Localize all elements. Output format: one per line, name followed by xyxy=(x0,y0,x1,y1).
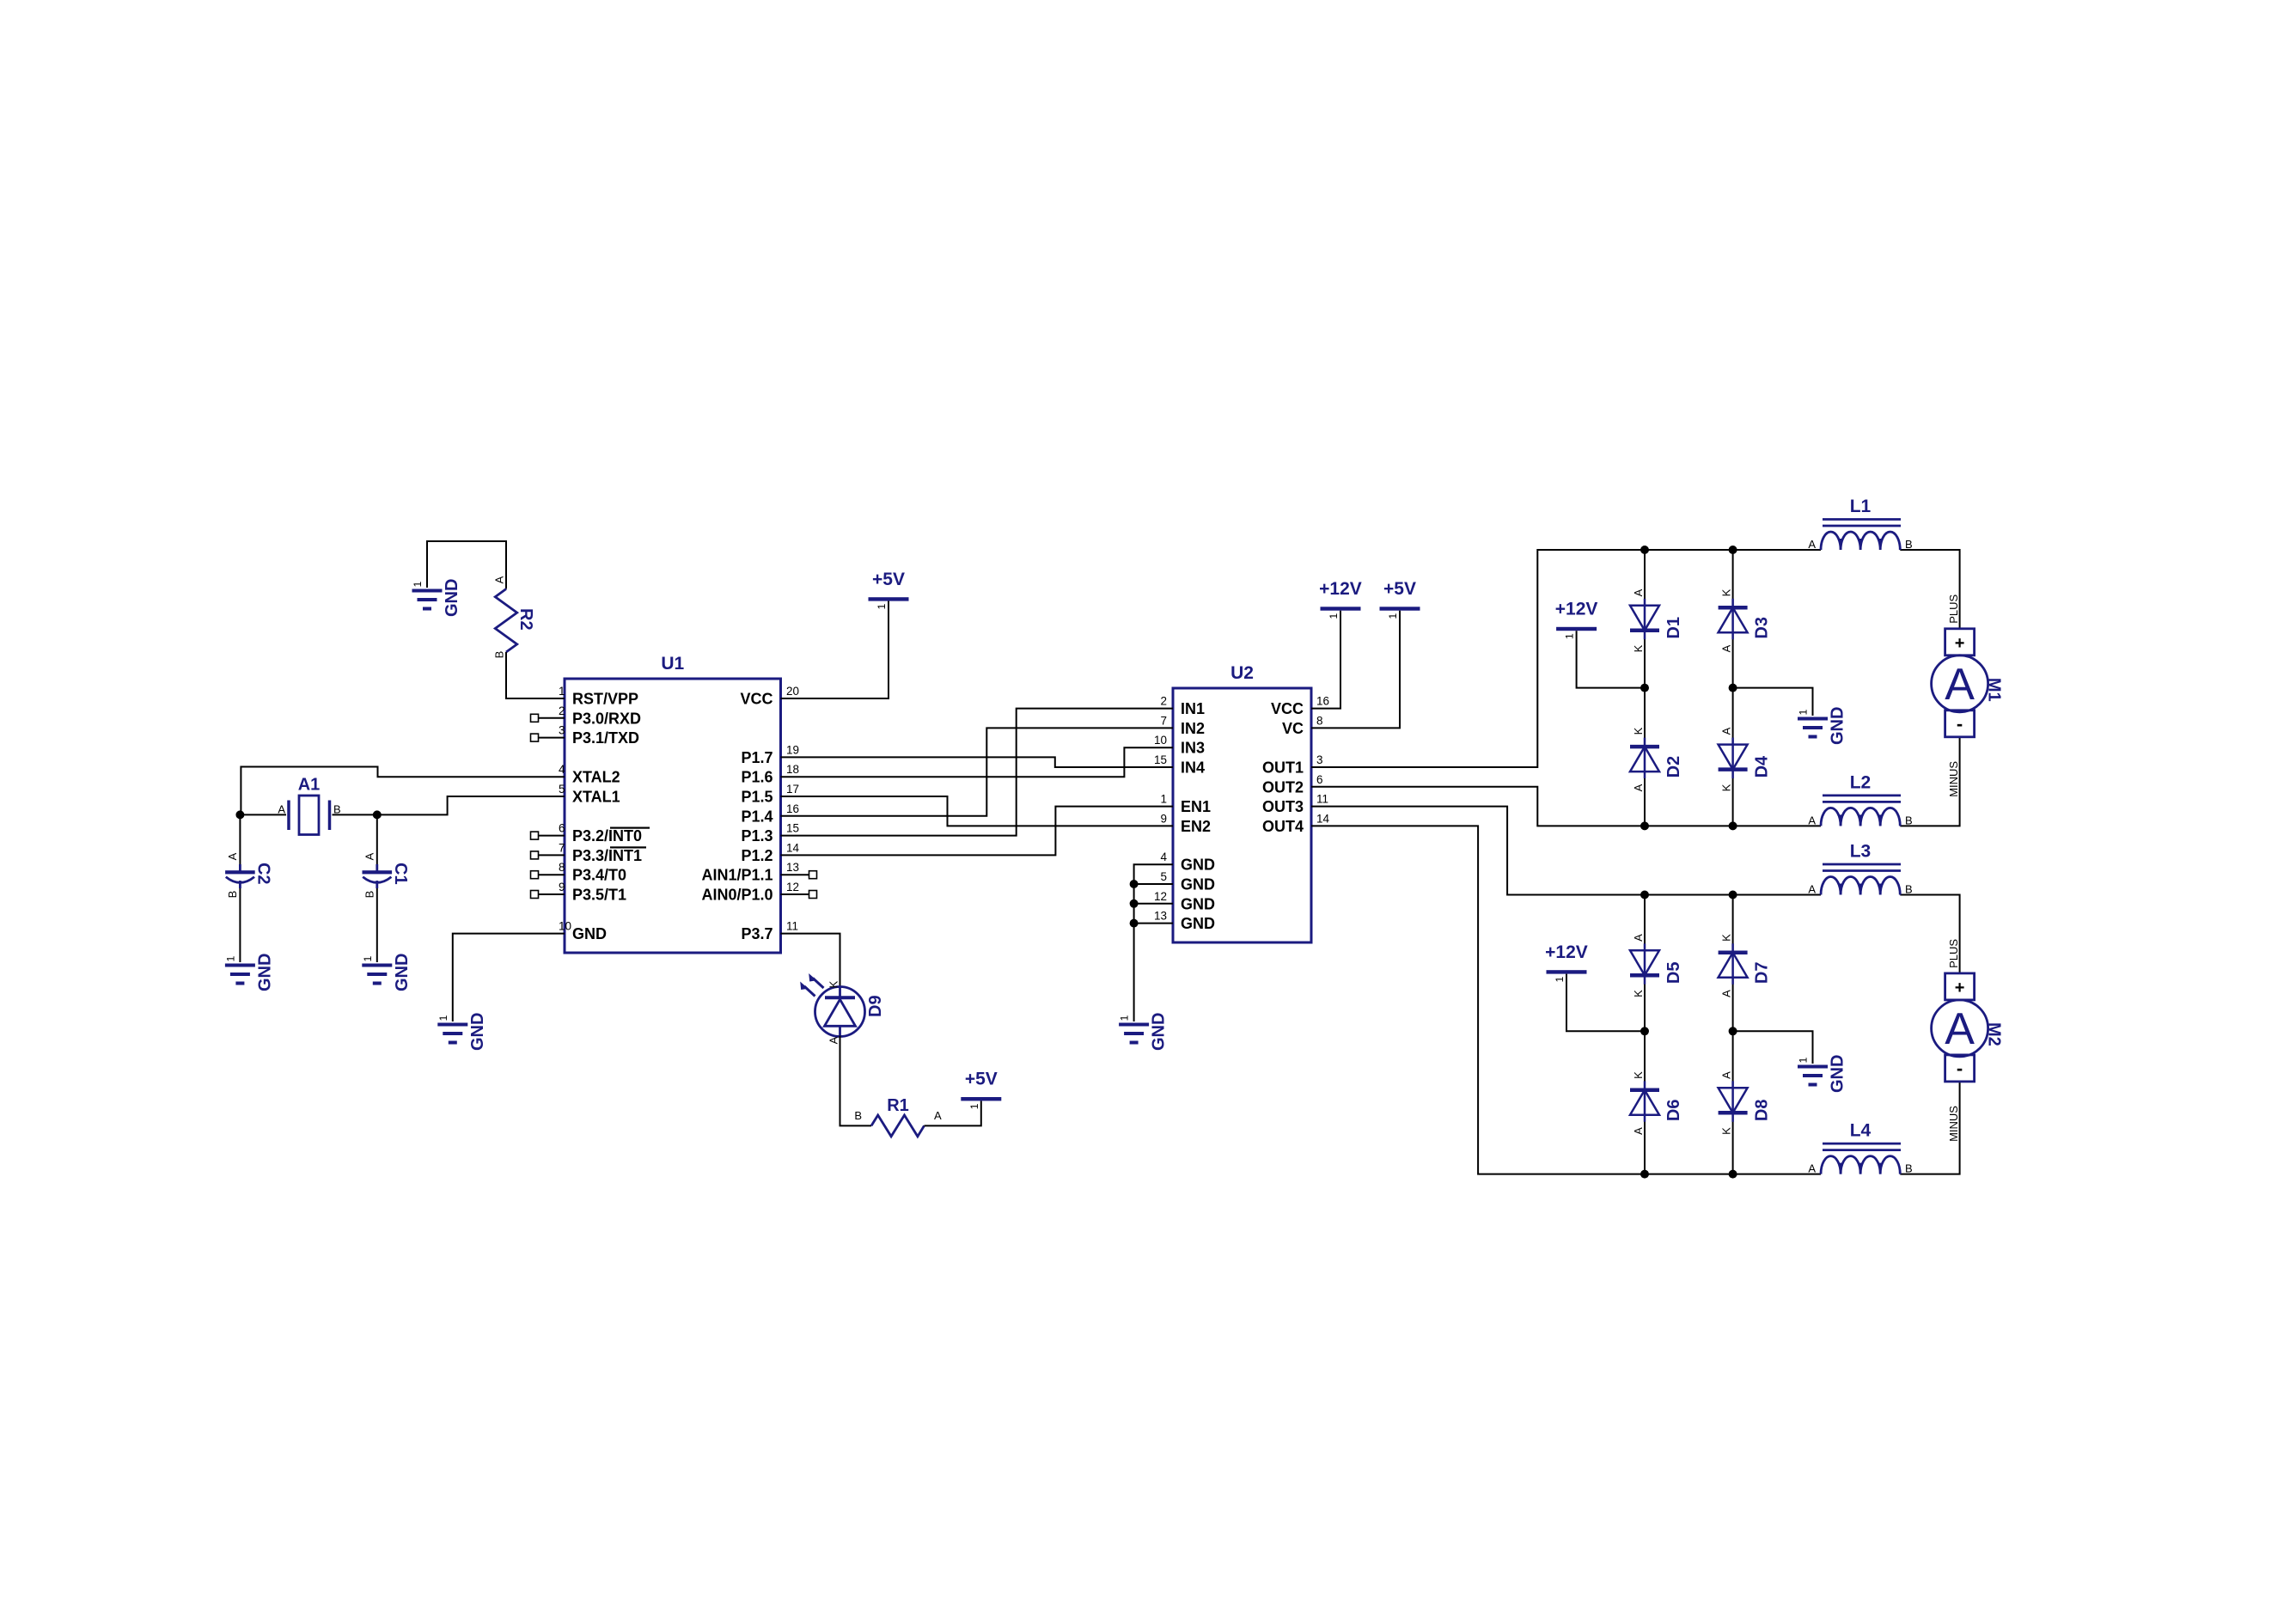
wire D7 cathode column xyxy=(1732,895,1734,951)
U1 pin 15 P1.3 name/number xyxy=(741,822,799,845)
svg-text:OUT2: OUT2 xyxy=(1262,778,1304,796)
svg-text:7: 7 xyxy=(1160,714,1167,727)
IC U1 AT89C2051 body xyxy=(565,654,781,953)
svg-text:10: 10 xyxy=(1154,734,1167,747)
diode D3 xyxy=(1719,599,1772,640)
svg-text:A1: A1 xyxy=(298,776,321,795)
svg-text:15: 15 xyxy=(1154,753,1167,766)
wire D2 anode to bottom rail xyxy=(1644,771,1646,826)
svg-text:P1.6: P1.6 xyxy=(741,769,772,786)
svg-text:D2: D2 xyxy=(1664,756,1683,778)
U2 pin 7 IN2 name/number xyxy=(1160,714,1205,737)
svg-text:B: B xyxy=(363,891,376,899)
U1 pin 12 stub wire xyxy=(781,893,809,895)
svg-text:P3.3/INT1: P3.3/INT1 xyxy=(572,847,642,864)
svg-text:A: A xyxy=(1720,990,1733,997)
svg-text:11: 11 xyxy=(786,920,798,933)
svg-text:A: A xyxy=(1720,727,1733,735)
svg-text:B: B xyxy=(333,803,341,816)
svg-text:D6: D6 xyxy=(1664,1100,1683,1122)
svg-text:1: 1 xyxy=(1564,633,1576,639)
svg-text:6: 6 xyxy=(1316,773,1323,786)
svg-text:14: 14 xyxy=(1316,812,1330,825)
ground symbol at bridge2 xyxy=(1798,1055,1847,1093)
U1 pin 12 AIN0/P1.0 name/number xyxy=(701,881,799,904)
U1 pin 4 XTAL2 name/number xyxy=(559,763,620,786)
svg-text:1: 1 xyxy=(412,581,424,587)
svg-text:B: B xyxy=(1905,814,1913,826)
svg-text:B: B xyxy=(493,651,506,659)
svg-text:17: 17 xyxy=(786,783,799,796)
wire L2 B to motor M1 minus xyxy=(1900,737,1959,826)
U1 pin 7 P3.3/INT1 name/number xyxy=(559,841,642,864)
svg-text:10: 10 xyxy=(559,920,571,933)
svg-text:P1.2: P1.2 xyxy=(741,847,772,864)
U1 pin 9 stub wire xyxy=(539,893,565,895)
capacitor C1 xyxy=(363,852,410,898)
svg-text:1: 1 xyxy=(559,685,565,698)
junction bridge2 bottom rail / D6 xyxy=(1640,1170,1649,1179)
U1 pin 17 P1.5 name/number xyxy=(741,783,799,806)
U1 pin 13 nc terminal xyxy=(809,871,817,879)
wire U2 OUT4 to bridge2 bottom rail xyxy=(1311,826,1821,1174)
U1 pin 13 stub wire xyxy=(781,874,809,875)
svg-text:A: A xyxy=(1720,1071,1733,1079)
diode D1 xyxy=(1630,599,1683,640)
svg-text:L1: L1 xyxy=(1850,497,1872,516)
U1 pin 6 stub wire xyxy=(539,835,565,837)
wire L4 B to motor M2 minus xyxy=(1900,1082,1959,1174)
wire D7/D8 node to ground xyxy=(1733,1031,1813,1064)
svg-text:GND: GND xyxy=(1829,707,1847,745)
svg-text:A: A xyxy=(1720,644,1733,652)
wire R2 pin B to U1 RST pin 1 xyxy=(506,652,565,698)
svg-text:AIN1/P1.1: AIN1/P1.1 xyxy=(701,867,772,884)
ground symbol at bridge1 xyxy=(1798,707,1847,745)
svg-text:GND: GND xyxy=(393,954,412,991)
wire U2 GND pin 12 stub xyxy=(1134,903,1173,905)
U1 pin 6 P3.2/INT0 name/number xyxy=(559,822,642,845)
junction node XTAL1/C1 xyxy=(373,810,382,819)
svg-text:2: 2 xyxy=(559,704,565,717)
svg-text:P1.3: P1.3 xyxy=(741,827,772,845)
svg-text:A: A xyxy=(1808,538,1816,551)
svg-text:+: + xyxy=(1955,979,1965,997)
U1 pin 8 P3.4/T0 name/number xyxy=(559,861,626,883)
svg-text:GND: GND xyxy=(1829,1055,1847,1093)
D7 anode label A xyxy=(1720,990,1733,997)
svg-text:GND: GND xyxy=(443,579,461,617)
wire P1.7 to U2 IN4 xyxy=(781,757,1174,767)
svg-text:P3.2/INT0: P3.2/INT0 xyxy=(572,827,642,845)
svg-text:A: A xyxy=(1632,934,1645,942)
svg-text:1: 1 xyxy=(224,955,236,961)
svg-text:19: 19 xyxy=(786,743,799,756)
svg-text:VCC: VCC xyxy=(1271,700,1304,717)
U2 pin 13 GND name/number xyxy=(1154,910,1215,933)
svg-text:K: K xyxy=(1632,644,1645,652)
U1 pin 8 stub wire xyxy=(539,874,565,875)
svg-text:1: 1 xyxy=(1554,976,1566,982)
svg-text:K: K xyxy=(1632,727,1645,735)
svg-text:A: A xyxy=(226,852,239,860)
power +12V at bridge2 xyxy=(1545,942,1588,983)
svg-text:K: K xyxy=(827,980,840,988)
svg-text:1: 1 xyxy=(1798,1057,1810,1063)
wire D2 cathode from node xyxy=(1644,688,1646,743)
svg-text:XTAL2: XTAL2 xyxy=(572,769,620,786)
D3 cathode label K xyxy=(1720,588,1733,596)
wire U1 GND pin 10 to ground xyxy=(453,934,565,1021)
power +5V above U1 xyxy=(869,570,909,610)
svg-text:6: 6 xyxy=(559,822,565,835)
wire crystal A to C2 xyxy=(239,814,241,864)
U1 pin 12 nc terminal xyxy=(809,891,817,899)
diode D6 xyxy=(1630,1081,1683,1122)
svg-text:MINUS: MINUS xyxy=(1947,1106,1960,1142)
svg-text:P3.0/RXD: P3.0/RXD xyxy=(572,710,641,727)
D7 cathode label K xyxy=(1720,934,1733,942)
svg-text:A: A xyxy=(1945,660,1975,710)
diode D5 xyxy=(1630,943,1683,985)
wire GND loop to R2 pin A xyxy=(427,541,506,589)
svg-text:RST/VPP: RST/VPP xyxy=(572,691,638,708)
crystal A1 xyxy=(278,776,340,835)
svg-text:L3: L3 xyxy=(1850,842,1872,862)
svg-text:GND: GND xyxy=(1181,915,1215,932)
junction D5-D6 +12V node xyxy=(1640,1027,1649,1035)
svg-text:GND: GND xyxy=(1181,876,1215,893)
svg-text:XTAL1: XTAL1 xyxy=(572,789,620,806)
svg-text:9: 9 xyxy=(559,881,565,893)
D1 cathode label K xyxy=(1632,644,1645,652)
wire D4 anode from node xyxy=(1732,688,1734,743)
svg-text:B: B xyxy=(226,891,239,899)
wire U2 GND pin 5 stub xyxy=(1134,883,1173,885)
svg-text:12: 12 xyxy=(786,881,799,893)
D3 anode label A xyxy=(1720,644,1733,652)
U2 pin 4 GND name/number xyxy=(1160,851,1215,874)
U1 pin 18 P1.6 name/number xyxy=(741,763,799,786)
svg-text:A: A xyxy=(827,1036,840,1044)
diode D4 xyxy=(1719,738,1772,779)
svg-text:M2: M2 xyxy=(1985,1022,2004,1046)
wire L1 B to motor M1 plus xyxy=(1900,550,1959,629)
svg-text:K: K xyxy=(1720,934,1733,942)
U1 pin 19 P1.7 name/number xyxy=(741,743,799,766)
D8 cathode label K xyxy=(1720,1127,1733,1135)
svg-text:+5V: +5V xyxy=(872,570,905,589)
svg-text:A: A xyxy=(493,576,506,583)
diode D8 xyxy=(1719,1081,1772,1122)
ground symbol for U1 pin 10 xyxy=(437,1013,487,1051)
svg-text:16: 16 xyxy=(786,802,799,815)
D2 anode label A xyxy=(1632,784,1645,791)
svg-text:PLUS: PLUS xyxy=(1947,939,1960,968)
svg-text:MINUS: MINUS xyxy=(1947,761,1960,797)
U1 pin 11 P3.7 name/number xyxy=(741,920,798,943)
junction node XTAL2/C2 xyxy=(235,810,244,819)
U1 pin 13 AIN1/P1.1 name/number xyxy=(701,861,799,883)
svg-text:PLUS: PLUS xyxy=(1947,595,1960,624)
svg-text:5: 5 xyxy=(1160,870,1167,883)
wire U2 GND pin 4 bus xyxy=(1134,864,1173,1021)
svg-text:A: A xyxy=(278,803,285,816)
svg-text:K: K xyxy=(1632,990,1645,997)
diode D2 xyxy=(1630,738,1683,779)
D4 cathode label K xyxy=(1720,784,1733,791)
svg-text:P3.4/T0: P3.4/T0 xyxy=(572,867,626,884)
svg-text:AIN0/P1.0: AIN0/P1.0 xyxy=(701,887,772,904)
svg-text:A: A xyxy=(934,1109,942,1122)
svg-text:16: 16 xyxy=(1316,695,1329,708)
D4 anode label A xyxy=(1720,727,1733,735)
wire D6 anode to bottom rail xyxy=(1644,1115,1646,1174)
wire U1 P3.7 to LED D9 cathode xyxy=(781,934,840,987)
power +5V above U2 xyxy=(1380,579,1420,619)
U2 pin 11 OUT3 name/number xyxy=(1262,793,1328,816)
svg-text:IN1: IN1 xyxy=(1181,700,1205,717)
svg-text:EN2: EN2 xyxy=(1181,818,1211,835)
U2 pin 8 VC name/number xyxy=(1282,714,1323,737)
U2 pin 5 GND name/number xyxy=(1160,870,1215,893)
junction D1-D2 +12V node xyxy=(1640,684,1649,692)
D5 anode label A xyxy=(1632,934,1645,942)
U1 pin 2 nc terminal xyxy=(531,714,539,722)
svg-text:1: 1 xyxy=(1160,793,1167,806)
U2 pin 15 IN4 name/number xyxy=(1154,753,1205,777)
IC U2 L293D body xyxy=(1173,663,1311,942)
svg-text:D5: D5 xyxy=(1664,962,1683,985)
wire +5V to U2 VC pin 8 xyxy=(1311,611,1400,729)
svg-text:1: 1 xyxy=(1328,613,1340,619)
inductor L3 xyxy=(1808,842,1912,896)
junction bridge1 bottom rail / D2 xyxy=(1640,821,1649,830)
wire crystal B lead xyxy=(333,814,377,815)
svg-text:7: 7 xyxy=(559,841,565,854)
wire D6 cathode from node xyxy=(1644,1031,1646,1086)
wire D3/D4 node to ground xyxy=(1733,688,1813,716)
wire U2 GND pin 13 stub xyxy=(1134,923,1173,924)
svg-text:K: K xyxy=(1720,588,1733,596)
svg-text:8: 8 xyxy=(1316,714,1323,727)
svg-text:A: A xyxy=(1808,883,1816,896)
wire P1.5 to U2 EN2 xyxy=(781,796,1174,826)
junction U2 GND bus pin 12 xyxy=(1130,899,1139,908)
svg-text:+12V: +12V xyxy=(1545,942,1588,962)
svg-text:L2: L2 xyxy=(1850,772,1872,792)
svg-text:1: 1 xyxy=(968,1103,980,1109)
wire D1 cathode to node xyxy=(1644,633,1646,688)
U1 pin 8 nc terminal xyxy=(531,871,539,879)
wire crystal A lead xyxy=(241,814,286,815)
wire D3 cathode column xyxy=(1732,550,1734,606)
wire D1 anode column xyxy=(1644,550,1646,606)
svg-text:18: 18 xyxy=(786,763,799,776)
LED D9 xyxy=(800,973,885,1044)
wire U2 OUT1 to bridge1 top rail xyxy=(1311,550,1821,767)
svg-text:1: 1 xyxy=(1798,709,1810,715)
resistor R2 xyxy=(493,576,536,658)
svg-text:-: - xyxy=(1957,1058,1963,1079)
svg-text:C1: C1 xyxy=(391,863,410,885)
wire +12V to D5/D6 node xyxy=(1566,974,1645,1032)
svg-text:B: B xyxy=(854,1109,862,1122)
D2 cathode label K xyxy=(1632,727,1645,735)
junction bridge1 bottom rail / D4 xyxy=(1729,821,1737,830)
svg-text:+5V: +5V xyxy=(965,1070,998,1089)
svg-text:GND: GND xyxy=(1181,895,1215,912)
svg-text:2: 2 xyxy=(1160,695,1167,708)
U1 pin 10 GND name/number xyxy=(559,920,607,943)
U2 pin 9 EN2 name/number xyxy=(1160,812,1211,835)
wire U1 XTAL1 to crystal B side xyxy=(377,796,565,814)
svg-text:4: 4 xyxy=(559,763,565,776)
power +12V above U2 xyxy=(1319,579,1362,619)
wire LED D9 anode to R1 pin B xyxy=(840,1036,872,1126)
junction bridge2 top rail / D7 xyxy=(1729,891,1737,899)
wire D3 anode to node xyxy=(1732,633,1734,688)
D6 anode label A xyxy=(1632,1127,1645,1135)
U1 pin 3 P3.1/TXD name/number xyxy=(559,724,639,747)
svg-text:13: 13 xyxy=(786,861,799,874)
U2 pin 10 IN3 name/number xyxy=(1154,734,1205,757)
svg-text:A: A xyxy=(1808,1162,1816,1175)
U1 pin 2 stub wire xyxy=(539,717,565,719)
wire D8 cathode to bottom rail xyxy=(1732,1115,1734,1174)
U1 pin 1 RST/VPP name/number xyxy=(559,685,638,708)
svg-text:+5V: +5V xyxy=(1383,579,1416,599)
svg-text:9: 9 xyxy=(1160,812,1167,825)
svg-text:IN3: IN3 xyxy=(1181,740,1205,757)
svg-text:+12V: +12V xyxy=(1555,600,1598,619)
svg-text:IN4: IN4 xyxy=(1181,759,1205,777)
wire +12V to U2 VCC pin 16 xyxy=(1311,611,1340,709)
svg-text:P1.4: P1.4 xyxy=(741,808,772,825)
wire D4 cathode to bottom rail xyxy=(1732,771,1734,826)
junction bridge2 bottom rail / D8 xyxy=(1729,1170,1737,1179)
ground symbol under C1 xyxy=(362,954,412,991)
motor M2 xyxy=(1932,939,2004,1142)
svg-text:R1: R1 xyxy=(887,1096,909,1115)
svg-text:GND: GND xyxy=(1181,857,1215,874)
svg-text:K: K xyxy=(1632,1071,1645,1079)
svg-text:A: A xyxy=(1808,814,1816,826)
U1 pin 3 stub wire xyxy=(539,737,565,739)
wire P1.4 to U2 IN2 xyxy=(781,728,1174,815)
U1 pin 2 P3.0/RXD name/number xyxy=(559,704,641,728)
svg-text:12: 12 xyxy=(1154,890,1167,903)
svg-text:P1.7: P1.7 xyxy=(741,749,772,766)
power +12V at bridge1 xyxy=(1555,600,1598,640)
ground symbol near R2 xyxy=(412,579,461,617)
wire L3 B to motor M2 plus xyxy=(1900,895,1959,973)
svg-text:B: B xyxy=(1905,883,1913,896)
U1 pin 7 stub wire xyxy=(539,854,565,856)
svg-text:-: - xyxy=(1957,713,1963,735)
svg-text:VC: VC xyxy=(1282,720,1304,737)
svg-text:P3.7: P3.7 xyxy=(741,925,772,942)
inductor L4 xyxy=(1808,1121,1912,1175)
svg-text:4: 4 xyxy=(1160,851,1167,863)
wire U2 OUT3 to bridge2 top rail xyxy=(1311,807,1821,895)
resistor R1 xyxy=(854,1096,942,1137)
diode D7 xyxy=(1719,943,1772,985)
wire crystal B to C1 xyxy=(376,814,378,864)
junction bridge1 top rail / D3 xyxy=(1729,546,1737,554)
capacitor C2 xyxy=(225,852,272,898)
junction D3-D4 GND node xyxy=(1729,684,1737,692)
U1 pin 3 nc terminal xyxy=(531,734,539,741)
U2 pin 2 IN1 name/number xyxy=(1160,695,1205,718)
svg-text:B: B xyxy=(1905,1162,1913,1175)
wire D8 anode from node xyxy=(1732,1031,1734,1086)
svg-text:A: A xyxy=(1945,1004,1975,1054)
svg-text:D4: D4 xyxy=(1753,755,1772,777)
D5 cathode label K xyxy=(1632,990,1645,997)
U2 pin 14 OUT4 name/number xyxy=(1262,812,1330,835)
svg-text:OUT4: OUT4 xyxy=(1262,818,1304,835)
svg-text:1: 1 xyxy=(1387,613,1399,619)
svg-text:A: A xyxy=(363,852,376,860)
svg-text:D1: D1 xyxy=(1664,617,1683,639)
wire D5 anode column xyxy=(1644,895,1646,951)
svg-text:14: 14 xyxy=(786,841,800,854)
U2 pin 12 GND name/number xyxy=(1154,890,1215,913)
wire +5V to U1 VCC pin 20 xyxy=(781,601,889,698)
U1 pin 20 VCC name/number xyxy=(740,685,799,708)
wire R1 pin A to +5V xyxy=(925,1101,981,1125)
svg-text:+12V: +12V xyxy=(1319,579,1362,599)
wire P1.6 to U2 IN3 xyxy=(781,747,1174,777)
svg-text:8: 8 xyxy=(559,861,565,874)
svg-text:L4: L4 xyxy=(1850,1121,1872,1141)
wire D5 cathode to node xyxy=(1644,978,1646,1031)
junction U2 GND bus pin 5 xyxy=(1130,880,1139,888)
svg-text:20: 20 xyxy=(786,685,799,698)
svg-text:A: A xyxy=(1632,1127,1645,1135)
svg-text:GND: GND xyxy=(468,1013,487,1051)
svg-text:P1.5: P1.5 xyxy=(741,789,772,806)
wire +12V to D1/D2 node xyxy=(1577,631,1645,687)
svg-text:GND: GND xyxy=(572,925,607,942)
wire D7 anode to node xyxy=(1732,978,1734,1031)
junction U2 GND bus pin 13 xyxy=(1130,919,1139,928)
svg-text:K: K xyxy=(1720,784,1733,791)
svg-text:M1: M1 xyxy=(1985,678,2004,702)
U2 pin 6 OUT2 name/number xyxy=(1262,773,1323,796)
svg-text:1: 1 xyxy=(1119,1015,1131,1021)
wire C2 to ground xyxy=(239,888,241,962)
svg-text:D7: D7 xyxy=(1753,962,1772,985)
svg-text:GND: GND xyxy=(255,954,274,991)
svg-text:K: K xyxy=(1720,1127,1733,1135)
U1 pin 6 nc terminal xyxy=(531,832,539,839)
svg-text:15: 15 xyxy=(786,822,799,835)
D8 anode label A xyxy=(1720,1071,1733,1079)
svg-text:VCC: VCC xyxy=(740,691,772,708)
U1 pin 5 XTAL1 name/number xyxy=(559,783,620,806)
U1 pin 16 P1.4 name/number xyxy=(741,802,799,826)
svg-text:11: 11 xyxy=(1316,793,1328,806)
junction bridge2 top rail / D5 xyxy=(1640,891,1649,899)
svg-text:1: 1 xyxy=(876,603,888,609)
junction bridge1 top rail / D1 xyxy=(1640,546,1649,554)
svg-text:U2: U2 xyxy=(1230,663,1254,683)
U1 pin 6 INT0 overbar xyxy=(610,827,650,829)
svg-text:U1: U1 xyxy=(661,654,684,674)
svg-text:A: A xyxy=(1632,784,1645,791)
